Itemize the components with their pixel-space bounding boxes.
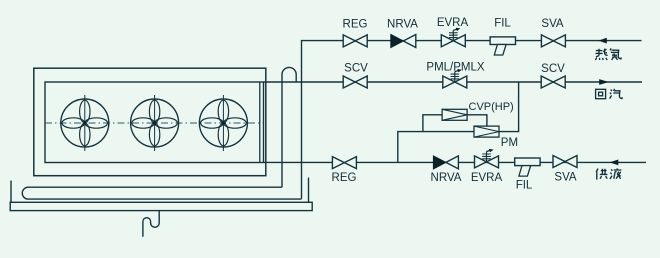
label REG (liquid)	[332, 172, 357, 184]
flow arrow hot gas (left)	[598, 38, 606, 44]
evaporator inner coil box	[45, 82, 264, 163]
label FIL (liquid)	[516, 180, 533, 192]
valve REG (hot gas)	[343, 35, 367, 47]
flow arrow suction (right)	[599, 79, 609, 85]
regulator CVP(HP)	[442, 109, 467, 120]
solenoid valve EVRA (hot gas)	[441, 28, 465, 46]
svg-text:CVP(HP): CVP(HP)	[469, 101, 514, 113]
CVP outlet drop into PM	[467, 115, 487, 127]
label EVRA (liquid)	[471, 172, 503, 184]
check valve NRVA (liquid)	[433, 156, 458, 169]
pan right lip	[308, 178, 310, 203]
svg-text:REG: REG	[343, 19, 368, 31]
fan F2	[131, 95, 179, 151]
热	[595, 49, 607, 60]
drain-pan heating pipe (U loop)	[22, 187, 301, 199]
stop valve SCV right (suction)	[541, 76, 565, 88]
flow arrow liquid (left)	[610, 160, 619, 166]
液	[610, 168, 621, 179]
label REG (hot gas)	[343, 19, 368, 31]
label PM	[501, 137, 518, 149]
liquid supply line	[264, 161, 647, 163]
svg-text:SCV: SCV	[344, 63, 368, 75]
svg-text:PM: PM	[501, 137, 518, 149]
filter FIL (hot gas)	[490, 37, 515, 55]
svg-text:PML/PMLX: PML/PMLX	[426, 62, 484, 74]
label CVP(HP)	[469, 101, 514, 113]
svg-text:SVA: SVA	[541, 18, 563, 30]
branch to CVP(HP)	[423, 115, 442, 132]
svg-text:NRVA: NRVA	[431, 172, 462, 184]
label NRVA (hot gas)	[387, 19, 418, 31]
stop valve SCV left (suction)	[343, 76, 367, 88]
filter FIL (liquid)	[515, 158, 540, 176]
label SCV left	[344, 63, 368, 75]
drain trap	[143, 211, 159, 237]
suction return line	[264, 81, 643, 83]
汽	[610, 89, 623, 99]
label SCV right	[541, 63, 565, 75]
pan pipe riser with cross-over arch to suction	[282, 67, 296, 187]
svg-text:FIL: FIL	[516, 180, 533, 192]
svg-text:FIL: FIL	[494, 18, 511, 30]
fan centerline (dash-dot)	[45, 122, 264, 124]
svg-text:REG: REG	[332, 172, 357, 184]
pilot valve PML/PMLX (suction)	[443, 70, 467, 88]
solenoid valve EVRA (liquid)	[475, 150, 499, 168]
label SVA (hot gas)	[541, 18, 563, 30]
氨	[610, 48, 621, 60]
PM outlet to suction line	[499, 82, 519, 132]
label 供液 (liquid supply), hand-drawn glyphs	[596, 168, 621, 179]
label FIL (hot gas)	[494, 18, 511, 30]
svg-text:EVRA: EVRA	[437, 17, 469, 29]
svg-text:SCV: SCV	[541, 63, 565, 75]
svg-text:NRVA: NRVA	[387, 19, 418, 31]
供	[596, 169, 607, 180]
regulator PM	[474, 126, 499, 137]
fan F1	[61, 95, 109, 151]
label PML/PMLX	[426, 62, 484, 74]
evaporator outer housing	[34, 68, 266, 176]
label EVRA (hot gas)	[437, 17, 469, 29]
回	[596, 89, 606, 98]
drain pan	[10, 202, 312, 210]
label 热氨 (hot ammonia), hand-drawn glyphs	[595, 48, 621, 60]
stop valve SVA (liquid)	[553, 156, 577, 168]
label NRVA (liquid)	[431, 172, 462, 184]
coil riser pipe inside right edge	[259, 82, 261, 163]
svg-text:SVA: SVA	[554, 172, 576, 184]
hot-gas line (to REG/NRVA/EVRA/FIL/SVA)	[302, 41, 642, 199]
bypass riser from liquid line	[398, 132, 474, 163]
label SVA (liquid)	[554, 172, 576, 184]
label 回汽 (suction return), hand-drawn glyphs	[596, 89, 623, 99]
check valve NRVA (hot gas)	[391, 35, 416, 48]
fan F3	[199, 95, 247, 151]
valve REG (liquid)	[332, 157, 356, 169]
pan left lip	[10, 181, 12, 203]
svg-text:EVRA: EVRA	[471, 172, 503, 184]
stop valve SVA (hot gas)	[541, 35, 565, 47]
